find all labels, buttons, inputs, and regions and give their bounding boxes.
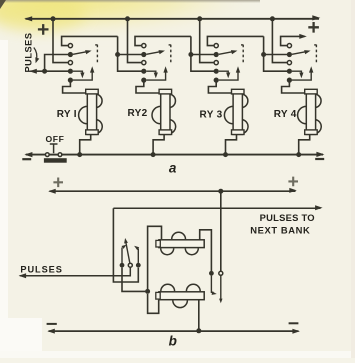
svg-text:RY I: RY I bbox=[57, 109, 77, 120]
label RY1 bbox=[57, 109, 77, 120]
svg-text:RY 3: RY 3 bbox=[200, 110, 223, 121]
junction on + rail (circuit b) bbox=[218, 189, 223, 194]
pulse direction curved arrow bbox=[34, 48, 40, 64]
PULSES input wire (circuit b) bbox=[19, 267, 131, 278]
contact RY1-5 coil contact (closed) bbox=[68, 78, 73, 83]
contact RY4-2 movable (closed) bbox=[287, 52, 292, 57]
relay coil RY4 bbox=[298, 89, 322, 134]
wire: feed to RY3 moving contact bbox=[191, 54, 216, 56]
wire: RY2 upper contact loop to next stage bbox=[135, 36, 191, 45]
figure label b bbox=[169, 334, 177, 349]
relay lower winding (coil) bbox=[156, 284, 204, 307]
junction on + rail above RY4 bbox=[270, 16, 275, 21]
contact RY4-1 upper stationary (open circle) bbox=[287, 44, 291, 48]
svg-text:a: a bbox=[169, 160, 177, 175]
PULSES TO NEXT BANK output wire bbox=[113, 205, 322, 210]
wire: + rail down to RY2 normally-closed contact bbox=[128, 19, 142, 63]
relay coil RY1 bbox=[79, 89, 103, 134]
wire: RY1 coil to ground rail bbox=[80, 134, 91, 154]
mechanical link (dashed) of RY4 bbox=[313, 45, 317, 64]
minus mark right (circuit a) bbox=[315, 158, 324, 160]
minus mark left (circuit b) bbox=[47, 323, 57, 325]
contact RY3-4 pulse contact (closed) bbox=[214, 69, 219, 74]
junction on + rail above RY2 bbox=[125, 16, 130, 21]
junction on interstage link at RY2 bbox=[115, 52, 120, 57]
contact RY3-5 coil contact (closed) bbox=[214, 78, 219, 83]
junction on interstage link at RY3 bbox=[188, 52, 193, 57]
contact B2-a stationary (from upper coil) bbox=[209, 271, 214, 276]
wire: RY3 coil to ground rail bbox=[226, 134, 237, 154]
wire: + rail down to RY1 normally-closed contact bbox=[53, 19, 68, 63]
mechanical link (dashed) of RY3 bbox=[240, 45, 244, 64]
svg-text:RY2: RY2 bbox=[128, 108, 148, 119]
armature arrow of RY3 transfer contact bbox=[219, 50, 238, 54]
contact B1-b stationary (to next bank) bbox=[136, 263, 141, 268]
contact RY2-3 lower stationary (open circle) bbox=[142, 61, 146, 65]
label OFF bbox=[46, 134, 65, 144]
contact RY3-3 lower stationary (open circle) bbox=[214, 61, 218, 65]
svg-text:RY 4: RY 4 bbox=[274, 109, 297, 120]
contact B1-a stationary (to coils) bbox=[120, 263, 125, 268]
armature arrow of RY1 transfer contact bbox=[73, 50, 92, 54]
contact RY4-5 coil contact (closed) bbox=[287, 78, 292, 83]
contact RY3-2 movable (closed) bbox=[214, 52, 219, 57]
relay upper winding (coil) bbox=[156, 232, 204, 254]
wire: feed to RY4 moving contact bbox=[264, 54, 290, 56]
contact RY2-4 pulse contact (closed) bbox=[141, 69, 146, 74]
OFF switch S1 in ground rail bbox=[44, 144, 67, 163]
contact RY3-1 upper stationary (open circle) bbox=[214, 44, 218, 48]
label RY2 bbox=[128, 108, 148, 119]
junction: PULSES wire to RY1 branch bbox=[42, 69, 47, 74]
junction on + rail above RY1 bbox=[51, 16, 56, 21]
PULSES input label (circuit a) bbox=[23, 33, 33, 73]
wire: feed to RY2 moving contact bbox=[118, 54, 144, 56]
wire: RY1 upper contact loop to next stage bbox=[62, 36, 118, 45]
svg-text:b: b bbox=[169, 334, 177, 349]
mechanical link (dashed) of RY2 bbox=[167, 45, 171, 64]
contact RY1-4 pulse contact (closed) bbox=[68, 69, 73, 74]
junction of RY1 coil return on ground rail bbox=[77, 152, 82, 157]
junction on + rail above RY3 bbox=[197, 16, 202, 21]
armature arrow of RY2 holding contact bbox=[146, 66, 167, 80]
armature arrow of RY1 pulse contact bbox=[73, 71, 85, 78]
contact B2 pole (open circle) bbox=[219, 271, 223, 275]
wire: RY1 holding contact to coil bbox=[63, 80, 88, 93]
wire: RY4 upper contact output to next counting bank bbox=[281, 34, 307, 46]
armature arrow of RY4 pulse contact bbox=[292, 71, 304, 78]
wire: RY4 holding contact to coil bbox=[282, 80, 307, 93]
wire: left stationary contact down to coil junction bbox=[122, 268, 145, 292]
label PULSES TO NEXT BANK bbox=[250, 212, 314, 235]
bottom return rail (-) of circuit b bbox=[47, 329, 300, 334]
junction of RY2 coil return on ground rail bbox=[151, 152, 156, 157]
label RY4 bbox=[274, 109, 297, 120]
wire: RY4 coil to ground rail bbox=[299, 134, 310, 154]
relay coil RY2 bbox=[152, 89, 176, 134]
contact RY2-1 upper stationary (open circle) bbox=[142, 44, 146, 48]
plus terminal label right (circuit a) bbox=[308, 22, 319, 33]
minus mark right (circuit b) bbox=[289, 322, 299, 324]
plus terminal label left (circuit a) bbox=[38, 24, 49, 35]
top supply rail (+) of circuit b bbox=[48, 188, 297, 194]
wire: + rail to relay pole contact bbox=[220, 191, 222, 271]
contact RY4-4 pulse contact (closed) bbox=[287, 69, 292, 74]
wire: interstage link down to RY2 pulse contact bbox=[118, 36, 144, 71]
wire: interstage link down to RY3 pulse contact bbox=[191, 36, 216, 71]
junction of RY3 coil return on ground rail bbox=[223, 152, 228, 157]
contact RY1-1 upper stationary (open circle) bbox=[68, 44, 72, 48]
armature spring arrow left of B1 pole bbox=[122, 245, 127, 263]
svg-text:PULSES: PULSES bbox=[23, 33, 33, 73]
wire: + rail down to RY3 normally-closed contact bbox=[200, 19, 214, 63]
contact RY2-2 movable (closed) bbox=[141, 52, 146, 57]
label RY3 bbox=[200, 110, 223, 121]
armature arrow of RY3 pulse contact bbox=[219, 71, 231, 78]
contact RY1-2 movable (closed) bbox=[68, 52, 73, 57]
contact RY1-3 lower stationary (open circle) bbox=[68, 61, 72, 65]
armature arrow of RY2 pulse contact bbox=[146, 71, 158, 78]
plus terminal label right (circuit b) bbox=[288, 177, 298, 187]
mechanical link (dashed) of RY1 bbox=[94, 45, 98, 64]
armature arrow of RY2 transfer contact bbox=[146, 50, 165, 54]
wire: RY2 holding contact to coil bbox=[136, 80, 161, 93]
relay coil RY3 bbox=[224, 89, 248, 134]
armature of B1 pole (tilted with arrow) bbox=[124, 238, 130, 263]
svg-text:OFF: OFF bbox=[46, 134, 65, 144]
figure label a bbox=[169, 160, 177, 175]
wire: lower coil right terminal to ground rail bbox=[198, 300, 200, 331]
wire: interstage link down to RY4 pulse contact bbox=[264, 36, 290, 71]
svg-text:PULSES: PULSES bbox=[20, 265, 62, 275]
armature arrow of RY3 holding contact bbox=[219, 66, 240, 80]
wire: RY2 coil to ground rail bbox=[153, 134, 164, 154]
armature spring arrow right of B1 pole bbox=[134, 246, 139, 263]
bottom return rail (-) of circuit a bbox=[24, 152, 324, 157]
junction of RY4 coil return on ground rail bbox=[296, 152, 301, 157]
armature spring arrow of B2-a bbox=[211, 276, 216, 295]
PULSES input wire into RY1 contact bbox=[29, 69, 70, 74]
armature arrow of RY4 holding contact bbox=[292, 66, 313, 80]
wire: branch from PULSES line up to RY1 moving contact bbox=[45, 55, 71, 72]
junction of coil common bbox=[145, 289, 150, 294]
armature arrow of RY1 holding contact bbox=[73, 66, 94, 80]
wire: RY3 holding contact to coil bbox=[208, 80, 233, 93]
svg-text:NEXT BANK: NEXT BANK bbox=[250, 225, 310, 236]
plus terminal label left (circuit b) bbox=[53, 178, 63, 188]
contact RY2-5 coil contact (closed) bbox=[141, 78, 146, 83]
minus mark left (circuit a) bbox=[22, 158, 31, 160]
wire: coil common vertical / upper coil left terminal bbox=[148, 226, 162, 313]
wire: RY3 upper contact loop to next stage bbox=[207, 36, 263, 45]
svg-text:PULSES TO: PULSES TO bbox=[260, 212, 315, 223]
contact B1 pole (open circle) bbox=[128, 263, 132, 267]
top supply rail (+) of circuit a bbox=[24, 15, 320, 21]
contact RY4-3 lower stationary (open circle) bbox=[287, 61, 291, 65]
wire: + rail down to RY4 normally-closed contact bbox=[272, 19, 287, 63]
junction on ground rail (circuit b) bbox=[196, 328, 201, 333]
armature arrow of RY4 transfer contact bbox=[292, 50, 311, 54]
PULSES input label (circuit b) bbox=[20, 265, 62, 275]
wire: upper coil right terminal to contact bbox=[200, 230, 212, 271]
armature of B2 pole bbox=[219, 275, 222, 303]
wire: output line down to transfer contact bbox=[113, 208, 138, 282]
junction on interstage link at RY4 bbox=[261, 52, 266, 57]
